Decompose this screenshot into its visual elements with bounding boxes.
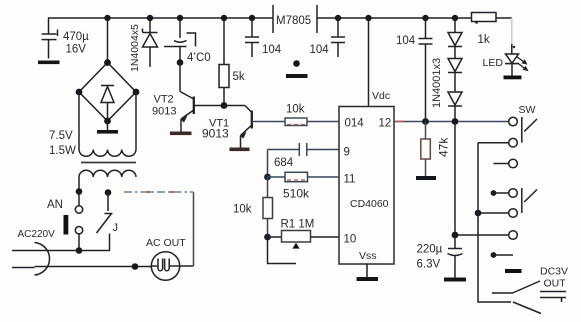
svg-text:OUT: OUT bbox=[544, 278, 567, 290]
wire contact3 stub bbox=[494, 163, 509, 165]
node rail-bridge bbox=[104, 15, 110, 21]
switch SW contact 3 bbox=[509, 159, 518, 168]
switch SW contact 1 bbox=[509, 117, 518, 126]
node rail-diode bbox=[147, 15, 153, 21]
wire pin12 row bbox=[394, 121, 509, 123]
switch SW contact 5 bbox=[509, 209, 518, 218]
LED bbox=[483, 18, 529, 76]
wire bridge right down bbox=[135, 92, 137, 150]
label 7.5V 1.5W bbox=[49, 130, 76, 157]
svg-text:M7805: M7805 bbox=[276, 15, 311, 27]
node primary right bbox=[105, 189, 112, 196]
resistor 1k bbox=[472, 13, 497, 47]
ground 220u bbox=[444, 278, 466, 282]
wire plug bottom to socket bbox=[35, 266, 152, 268]
diode VD 1N4004 bbox=[129, 18, 158, 72]
AC220V plug bbox=[12, 229, 55, 275]
IC U1 CD4060 bbox=[339, 107, 394, 265]
wire primary left lead bbox=[78, 177, 80, 192]
wire pin12 red artifact bbox=[396, 121, 404, 123]
svg-text:4’C0: 4’C0 bbox=[187, 52, 211, 64]
wire top rail left bbox=[48, 17, 273, 19]
wire stub with node near DC out bbox=[491, 252, 513, 258]
node M7805 ground bbox=[293, 60, 300, 67]
ground under 470u bbox=[38, 61, 60, 65]
wire R1 bottom return bbox=[268, 239, 297, 264]
switch SW arm 1 bbox=[522, 117, 537, 143]
svg-text:1k: 1k bbox=[478, 34, 490, 46]
svg-text:J: J bbox=[113, 222, 119, 234]
svg-text:7.5V: 7.5V bbox=[49, 130, 73, 142]
switch SW contact 2 bbox=[509, 138, 518, 147]
relay contact J bbox=[97, 193, 119, 251]
svg-text:AN: AN bbox=[47, 199, 63, 211]
wire contact4 stub bbox=[491, 190, 509, 196]
capacitor 684 bbox=[268, 143, 307, 177]
ground VT2 emitter bbox=[170, 132, 192, 136]
resistor 10k horizontal bbox=[285, 104, 339, 126]
node rail-5k bbox=[221, 15, 227, 21]
svg-text:12: 12 bbox=[379, 118, 392, 130]
ground under bridge bbox=[97, 130, 118, 134]
wire plug to AN and J bbox=[35, 250, 111, 252]
svg-text:10k: 10k bbox=[286, 104, 305, 116]
wire cap node to VT2 base bbox=[180, 63, 194, 100]
node right rail bottom bbox=[452, 232, 459, 239]
svg-text:014: 014 bbox=[345, 118, 365, 130]
diode chain 1N4001x3 bbox=[431, 18, 462, 122]
transformer core bbox=[81, 162, 136, 164]
svg-text:6.3V: 6.3V bbox=[417, 259, 441, 271]
capacitor 104 c bbox=[396, 18, 433, 122]
resistor 5k bbox=[219, 18, 245, 106]
wire bridge bottom to ground bbox=[107, 121, 109, 130]
pushbutton AN bbox=[47, 192, 83, 251]
svg-text:DC3V: DC3V bbox=[540, 266, 568, 278]
svg-text:104: 104 bbox=[262, 44, 282, 56]
svg-text:9: 9 bbox=[344, 147, 350, 159]
wire contact6 bbox=[455, 234, 509, 236]
svg-text:220µ: 220µ bbox=[417, 244, 443, 256]
ground Vss bbox=[357, 277, 379, 281]
bar near DC out bbox=[505, 269, 522, 273]
transistor VT2 9013 bbox=[152, 94, 224, 132]
transformer T secondary bbox=[79, 150, 136, 157]
switch SW arm 2 bbox=[522, 188, 537, 213]
potentiometer R1 1M bbox=[268, 219, 340, 249]
node pin12-47k bbox=[422, 118, 429, 125]
switch SW contact 6 bbox=[509, 231, 518, 240]
svg-text:470µ: 470µ bbox=[63, 31, 89, 43]
capacitor 4'C0 bbox=[164, 18, 211, 64]
wire top rail to LED bbox=[496, 17, 512, 19]
switch SW contact 4 bbox=[509, 189, 518, 198]
svg-text:VT2: VT2 bbox=[154, 94, 174, 106]
regulator M7805 bbox=[273, 5, 317, 33]
wire bridge left down bbox=[78, 92, 80, 150]
node rail-104a bbox=[249, 15, 255, 21]
svg-text:16V: 16V bbox=[66, 44, 87, 56]
node rail-cap bbox=[177, 15, 183, 21]
node VT2 collector bbox=[221, 102, 228, 109]
wire node to VT1 base bbox=[224, 106, 252, 113]
transistor VT1 9013 bbox=[202, 111, 285, 148]
svg-text:510k: 510k bbox=[283, 187, 310, 201]
svg-text:AC OUT: AC OUT bbox=[146, 237, 186, 249]
svg-text:1N4001x3: 1N4001x3 bbox=[431, 58, 443, 108]
svg-text:1.5W: 1.5W bbox=[49, 145, 76, 157]
svg-text:9013: 9013 bbox=[152, 106, 176, 118]
svg-text:AC220V: AC220V bbox=[18, 229, 56, 240]
svg-text:10k: 10k bbox=[233, 204, 252, 216]
resistor 47k bbox=[421, 122, 451, 177]
resistor 10k vertical bbox=[233, 177, 273, 237]
wire contact2 to inner rail bbox=[478, 142, 509, 144]
svg-text:9013: 9013 bbox=[202, 127, 229, 141]
node rail-diodes bbox=[452, 15, 458, 21]
svg-text:1N4004x5: 1N4004x5 bbox=[129, 24, 141, 72]
svg-text:5k: 5k bbox=[233, 71, 245, 83]
ground LED bbox=[504, 76, 522, 80]
svg-text:LED: LED bbox=[483, 57, 504, 69]
svg-text:104: 104 bbox=[396, 35, 416, 47]
wire Vss ground lead bbox=[366, 264, 368, 277]
wire socket right bbox=[180, 265, 194, 267]
wire rail to bridge top bbox=[107, 18, 109, 63]
wire top rail right bbox=[317, 17, 472, 19]
capacitor C 470u bbox=[42, 18, 90, 59]
svg-text:R1 1M: R1 1M bbox=[281, 219, 315, 231]
node primary left bbox=[76, 188, 83, 195]
bridge rectifier bbox=[76, 59, 140, 124]
capacitor 104 a bbox=[245, 18, 282, 57]
wire pin9 bbox=[307, 149, 339, 151]
svg-text:684: 684 bbox=[274, 157, 294, 169]
node socket left bbox=[132, 263, 139, 270]
svg-text:10: 10 bbox=[344, 234, 357, 246]
svg-text:47k: 47k bbox=[437, 137, 451, 157]
transformer T primary bbox=[79, 170, 136, 177]
wire Vdc bbox=[369, 18, 391, 107]
node inner rail bbox=[475, 210, 482, 217]
svg-text:CD4060: CD4060 bbox=[350, 198, 389, 210]
wire socket right riser bbox=[193, 192, 195, 266]
wire inner rail bbox=[478, 143, 511, 302]
socket AC OUT bbox=[146, 237, 186, 280]
svg-text:104: 104 bbox=[310, 44, 330, 56]
capacitor 220u 6.3V bbox=[417, 235, 463, 278]
node rail-104b bbox=[335, 15, 341, 21]
svg-text:Vss: Vss bbox=[359, 250, 377, 262]
node cap-VT2 bbox=[177, 59, 184, 66]
label SW bbox=[519, 104, 536, 116]
node left rail bbox=[264, 174, 271, 181]
svg-text:SW: SW bbox=[519, 104, 536, 116]
svg-text:Vdc: Vdc bbox=[372, 90, 390, 102]
node diodes-pin12 bbox=[452, 118, 459, 125]
ground 47k bbox=[416, 176, 436, 180]
node rail-Vdc bbox=[365, 15, 371, 21]
DC plug DC3V OUT bbox=[492, 266, 568, 314]
capacitor 104 b bbox=[310, 18, 346, 57]
wire dash-dot relay link bbox=[124, 191, 194, 193]
node AN bottom bbox=[76, 247, 83, 254]
wire right rail down bbox=[454, 122, 456, 236]
ground under M7805 bbox=[286, 74, 308, 78]
ground VT1 emitter bbox=[230, 148, 250, 152]
node rail-104c bbox=[422, 15, 428, 21]
svg-text:11: 11 bbox=[344, 174, 356, 186]
node R1 left bbox=[264, 234, 271, 241]
resistor 510k bbox=[268, 172, 340, 200]
wire contact5 to inner rail bbox=[478, 212, 509, 214]
